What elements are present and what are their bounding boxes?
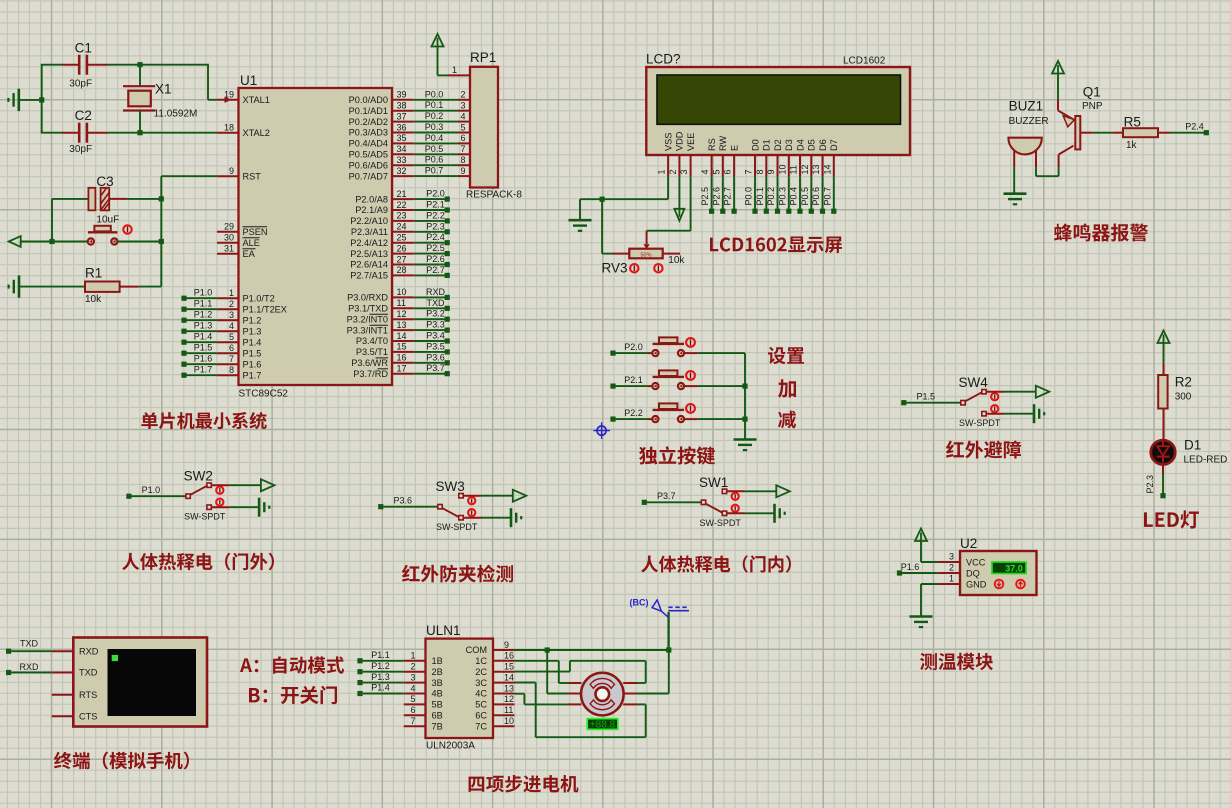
wire button bus (742, 353, 747, 439)
svg-text:1C: 1C (475, 656, 487, 666)
svg-text:9: 9 (504, 640, 509, 650)
power terminal (RP1) (432, 34, 449, 75)
svg-text:D1: D1 (1184, 437, 1201, 452)
wire C1 left (41, 64, 63, 66)
svg-text:P2.4/A12: P2.4/A12 (350, 238, 388, 248)
svg-text:LCD?: LCD? (646, 52, 681, 67)
svg-text:P2.6: P2.6 (711, 187, 721, 206)
label text 单片机最小系统 (141, 412, 266, 429)
capacitor C3 (52, 174, 161, 226)
svg-text:D1: D1 (762, 139, 772, 151)
svg-text:P3.3: P3.3 (426, 320, 445, 330)
svg-text:P1.4: P1.4 (243, 337, 262, 347)
wire COM (515, 612, 672, 694)
svg-text:6: 6 (723, 169, 733, 174)
svg-text:TXD: TXD (20, 639, 39, 649)
wire RST vertical (159, 176, 217, 286)
wire 4C to motor (515, 694, 569, 705)
svg-text:P0.7: P0.7 (425, 166, 444, 176)
arrow terminal (reset row) (9, 236, 55, 247)
svg-text:EA: EA (243, 249, 256, 259)
svg-text:10uF: 10uF (96, 215, 119, 226)
svg-text:RV3: RV3 (602, 261, 628, 276)
svg-text:P2.0: P2.0 (426, 189, 445, 199)
svg-text:2: 2 (460, 90, 465, 100)
svg-text:STC89C52: STC89C52 (239, 388, 289, 399)
origin marker (blue) (593, 422, 610, 439)
svg-text:BUZZER: BUZZER (1009, 116, 1049, 127)
svg-text:U2: U2 (960, 536, 977, 551)
svg-text:4C: 4C (475, 689, 487, 699)
svg-text:C1: C1 (75, 41, 92, 56)
wire C2 to XTAL2 (108, 132, 217, 134)
svg-text:7: 7 (229, 354, 234, 364)
svg-text:SW3: SW3 (436, 479, 465, 494)
svg-text:P2.4: P2.4 (1185, 122, 1204, 132)
svg-text:PSEN: PSEN (243, 227, 268, 237)
svg-text:P1.3: P1.3 (371, 672, 390, 682)
svg-text:3: 3 (679, 169, 689, 174)
svg-text:3: 3 (949, 552, 954, 562)
svg-text:33: 33 (397, 155, 407, 165)
svg-text:R1: R1 (85, 265, 102, 280)
svg-text:5: 5 (711, 169, 721, 174)
svg-text:P1.0/T2: P1.0/T2 (243, 293, 275, 303)
svg-text:1: 1 (949, 574, 954, 584)
resistor R2 (1158, 364, 1192, 439)
svg-text:13: 13 (811, 164, 821, 174)
svg-text:P0.1: P0.1 (755, 187, 765, 206)
svg-text:1k: 1k (1126, 140, 1138, 151)
svg-text:P3.7: P3.7 (426, 363, 445, 373)
svg-text:D6: D6 (818, 139, 828, 151)
svg-text:24: 24 (397, 222, 407, 232)
svg-text:SW-SPDT: SW-SPDT (959, 418, 1001, 428)
svg-text:10: 10 (397, 287, 407, 297)
svg-text:31: 31 (224, 244, 234, 254)
ground (LCD VSS) (569, 220, 592, 231)
svg-text:SW2: SW2 (184, 469, 213, 484)
svg-text:P1.1/T2EX: P1.1/T2EX (243, 304, 287, 314)
svg-text:SW1: SW1 (699, 475, 728, 490)
svg-text:P0.3/AD3: P0.3/AD3 (349, 128, 388, 138)
svg-text:TXD: TXD (79, 668, 98, 678)
svg-text:P3.5: P3.5 (426, 341, 445, 351)
svg-text:25: 25 (397, 233, 407, 243)
svg-text:50%: 50% (640, 253, 651, 259)
resistor pack RP1 RESPACK-8 (448, 50, 522, 201)
svg-text:7B: 7B (432, 721, 443, 731)
svg-text:GND: GND (966, 579, 987, 589)
svg-text:RW: RW (718, 136, 728, 151)
svg-text:12: 12 (504, 694, 514, 704)
svg-text:10k: 10k (668, 255, 685, 266)
svg-text:8: 8 (460, 155, 465, 165)
label text 终端（模拟手机） (54, 752, 189, 770)
svg-text:5: 5 (410, 694, 415, 704)
node terminals P1.0-P1.7 (181, 288, 217, 378)
node terminals P3 (RXD TXD P3.2-P3.7) (414, 287, 450, 376)
svg-text:3C: 3C (475, 678, 487, 688)
transistor Q1 PNP (1058, 84, 1103, 167)
svg-text:P2.3: P2.3 (426, 221, 445, 231)
svg-text:P1.1: P1.1 (194, 299, 213, 309)
svg-text:P3.0/RXD: P3.0/RXD (347, 293, 388, 303)
label text 人体热释电（门外） (122, 553, 274, 571)
LCD display LCD1602 (646, 52, 910, 177)
ground (U2) (910, 617, 933, 628)
svg-text:P2.2: P2.2 (426, 210, 445, 220)
svg-text:10: 10 (504, 716, 514, 726)
svg-text:SW-SPDT: SW-SPDT (700, 518, 742, 528)
svg-text:39: 39 (397, 90, 407, 100)
svg-text:P2.0/A8: P2.0/A8 (355, 194, 388, 204)
svg-text:12: 12 (800, 164, 810, 174)
label text 测温模块 (920, 653, 993, 670)
svg-text:6: 6 (460, 133, 465, 143)
svg-text:9: 9 (460, 166, 465, 176)
motor speed display (587, 719, 618, 731)
svg-text:P0.0: P0.0 (425, 89, 444, 99)
svg-text:3: 3 (460, 101, 465, 111)
svg-text:P3.5/T1: P3.5/T1 (356, 347, 388, 357)
svg-text:30: 30 (224, 233, 234, 243)
svg-text:P0.5: P0.5 (800, 187, 810, 206)
node terminals P2.0-P2.7 (414, 189, 450, 278)
temperature module U2 (938, 536, 1037, 595)
svg-text:2: 2 (668, 169, 678, 174)
svg-text:P3.4: P3.4 (426, 331, 445, 341)
svg-text:6: 6 (410, 705, 415, 715)
label text 减 (778, 411, 796, 429)
svg-text:5C: 5C (475, 700, 487, 710)
svg-text:RXD: RXD (19, 662, 39, 672)
label text 独立按键 (639, 446, 715, 464)
svg-text:300: 300 (1175, 392, 1192, 403)
svg-text:P2.1/A9: P2.1/A9 (355, 205, 388, 215)
virtual terminal (phone) (52, 638, 207, 727)
svg-text:15: 15 (397, 342, 407, 352)
capacitor C1 (62, 41, 108, 90)
svg-text:D0: D0 (750, 139, 760, 151)
svg-text:35: 35 (397, 133, 407, 143)
svg-text:XTAL2: XTAL2 (243, 128, 270, 138)
svg-text:36: 36 (397, 122, 407, 132)
svg-text:VCC: VCC (966, 557, 986, 567)
svg-text:14: 14 (397, 331, 407, 341)
svg-text:13: 13 (397, 320, 407, 330)
power terminal VDD (down arrow) (674, 176, 684, 220)
svg-text:9: 9 (766, 169, 776, 174)
svg-text:P2.6/A14: P2.6/A14 (350, 260, 388, 270)
svg-text:RST: RST (243, 171, 262, 181)
power terminal (Q1 emitter) (1052, 61, 1064, 101)
svg-text:P3.2/INT0: P3.2/INT0 (347, 314, 388, 324)
wire VSS to ground (580, 176, 668, 220)
svg-text:SW-SPDT: SW-SPDT (184, 512, 226, 522)
svg-text:P1.2: P1.2 (371, 661, 390, 671)
svg-text:BUZ1: BUZ1 (1009, 99, 1044, 114)
resistor R1 (85, 265, 161, 304)
svg-text:P0.3: P0.3 (425, 122, 444, 132)
label text 四项步进电机 (469, 775, 579, 792)
svg-text:8: 8 (229, 365, 234, 375)
svg-text:P1.7: P1.7 (243, 370, 262, 380)
wire base to R5 (1093, 132, 1113, 134)
svg-text:P2.7/A15: P2.7/A15 (350, 271, 388, 281)
junction (C1/C2 vertical) (39, 65, 44, 133)
label text LCD1602显示屏 (710, 236, 842, 253)
microcontroller U1 STC89C52 (217, 73, 414, 399)
svg-text:7: 7 (744, 169, 754, 174)
svg-text:10: 10 (777, 164, 787, 174)
svg-text:P0.0: P0.0 (744, 187, 754, 206)
svg-text:14: 14 (822, 164, 832, 174)
svg-text:P1.2: P1.2 (243, 315, 262, 325)
push button P2.1 (610, 370, 745, 389)
svg-text:P3.4/T0: P3.4/T0 (356, 336, 388, 346)
svg-text:7C: 7C (475, 721, 487, 731)
svg-text:11: 11 (789, 165, 799, 174)
svg-text:1B: 1B (432, 656, 443, 666)
svg-text:P3.6: P3.6 (394, 496, 413, 506)
svg-text:RESPACK-8: RESPACK-8 (466, 190, 522, 201)
wire U2 GND (921, 584, 938, 617)
svg-text:P2.5: P2.5 (426, 243, 445, 253)
wire VEE to RV3 wiper (643, 176, 690, 249)
svg-text:LED-RED: LED-RED (1184, 454, 1228, 465)
svg-text:P3.7/RD: P3.7/RD (353, 369, 388, 379)
svg-text:2: 2 (949, 563, 954, 573)
svg-text:1: 1 (452, 65, 457, 75)
svg-text:15: 15 (504, 662, 514, 672)
svg-text:P1.3: P1.3 (194, 321, 213, 331)
svg-text:14: 14 (504, 672, 514, 682)
crystal X1 (123, 62, 197, 135)
svg-text:P1.6: P1.6 (194, 354, 213, 364)
wire C2 left (41, 132, 63, 134)
svg-text:13: 13 (504, 683, 514, 693)
wire C1 to XTAL1 (108, 65, 217, 100)
svg-text:P0.2: P0.2 (766, 187, 776, 206)
svg-text:D4: D4 (795, 139, 805, 151)
svg-text:3B: 3B (432, 678, 443, 688)
svg-text:U1: U1 (240, 73, 257, 88)
svg-text:P0.2/AD2: P0.2/AD2 (349, 117, 388, 127)
svg-text:RP1: RP1 (470, 50, 496, 65)
svg-text:38: 38 (397, 101, 407, 111)
svg-text:P1.6: P1.6 (243, 359, 262, 369)
svg-text:E: E (729, 145, 739, 151)
node terminal P2.4 (1170, 122, 1209, 136)
svg-text:P1.5: P1.5 (917, 392, 936, 402)
svg-text:P1.4: P1.4 (371, 683, 390, 693)
svg-text:P1.5: P1.5 (194, 343, 213, 353)
label text LED灯 (1144, 510, 1199, 528)
svg-text:P2.4: P2.4 (426, 232, 445, 242)
svg-text:Q1: Q1 (1083, 84, 1101, 99)
capacitor C2 (62, 108, 108, 155)
svg-text:P2.1: P2.1 (624, 375, 643, 385)
svg-text:P2.1: P2.1 (426, 200, 445, 210)
wire buzzer left to ground (1013, 168, 1015, 194)
svg-text:6B: 6B (432, 711, 443, 721)
svg-text:ULN1: ULN1 (426, 623, 461, 638)
svg-text:P0.7: P0.7 (822, 187, 832, 206)
svg-text:30pF: 30pF (69, 79, 92, 90)
svg-text:18: 18 (224, 123, 234, 133)
svg-text:34: 34 (397, 144, 407, 154)
svg-text:PNP: PNP (1082, 101, 1103, 112)
svg-text:32: 32 (397, 166, 407, 176)
ground (buzzer) (1004, 194, 1027, 205)
svg-text:P1.7: P1.7 (194, 365, 213, 375)
svg-text:P1.3: P1.3 (243, 326, 262, 336)
svg-text:+88.8: +88.8 (590, 720, 616, 731)
svg-text:P0.5: P0.5 (425, 144, 444, 154)
svg-text:RS: RS (707, 138, 717, 151)
switch SW4 SW-SPDT (901, 375, 1049, 428)
svg-text:D5: D5 (807, 139, 817, 151)
svg-text:C2: C2 (75, 108, 92, 123)
svg-text:P2.7: P2.7 (723, 187, 733, 206)
svg-text:P0.4: P0.4 (425, 133, 444, 143)
svg-text:P2.2: P2.2 (624, 408, 643, 418)
svg-text:D2: D2 (773, 139, 783, 151)
svg-text:P0.6: P0.6 (425, 155, 444, 165)
bus wires P0.0-P0.7 to RP1 (414, 89, 470, 176)
svg-text:ULN2003A: ULN2003A (426, 741, 475, 752)
svg-text:DQ: DQ (966, 568, 980, 578)
svg-text:P2.5/A13: P2.5/A13 (350, 249, 388, 259)
svg-text:1: 1 (229, 288, 234, 298)
svg-text:9: 9 (229, 166, 234, 176)
svg-text:LCD1602: LCD1602 (843, 56, 886, 67)
svg-text:12: 12 (397, 309, 407, 319)
svg-text:R5: R5 (1124, 114, 1141, 129)
svg-text:P1.6: P1.6 (901, 562, 920, 572)
antenna (BC) (630, 598, 690, 650)
svg-text:6C: 6C (475, 711, 487, 721)
svg-text:D3: D3 (784, 139, 794, 151)
svg-text:23: 23 (397, 211, 407, 221)
svg-text:P0.2: P0.2 (425, 111, 444, 121)
ground (R1 row) (9, 275, 85, 297)
svg-text:P0.1/AD1: P0.1/AD1 (349, 106, 388, 116)
junction (VSS/RV3) (600, 197, 605, 202)
svg-text:P3.6: P3.6 (426, 352, 445, 362)
svg-text:28: 28 (397, 265, 407, 275)
buzzer BUZ1 (1008, 99, 1048, 168)
label text 红外避障 (946, 441, 1021, 459)
svg-text:VSS: VSS (663, 133, 673, 151)
svg-text:5B: 5B (432, 700, 443, 710)
svg-text:P2.5: P2.5 (700, 187, 710, 206)
node terminals P1.1-P1.4 (357, 650, 403, 696)
wire RV3 left (602, 199, 613, 253)
node terminal P1.6 (897, 562, 938, 576)
svg-text:4: 4 (700, 169, 710, 174)
push button P2.2 (610, 403, 745, 422)
label text 蜂鸣器报警 (1054, 224, 1148, 242)
svg-text:8: 8 (755, 169, 765, 174)
driver ULN1 ULN2003A (404, 623, 515, 752)
svg-text:30pF: 30pF (69, 144, 92, 155)
svg-text:P2.2/A10: P2.2/A10 (350, 216, 388, 226)
node terminal RXD (6, 662, 52, 675)
switch SW3 SW-SPDT (378, 479, 526, 532)
svg-text:P1.1: P1.1 (371, 650, 390, 660)
LED D1 LED-RED (1151, 437, 1228, 465)
svg-text:P1.2: P1.2 (194, 310, 213, 320)
svg-text:1: 1 (657, 169, 667, 174)
label text 红外防夹检测 (402, 565, 513, 583)
svg-text:P0.4/AD4: P0.4/AD4 (349, 139, 388, 149)
svg-text:5: 5 (229, 332, 234, 342)
svg-text:SW-SPDT: SW-SPDT (436, 522, 478, 532)
svg-text:C3: C3 (96, 174, 113, 189)
potentiometer RV3 (602, 249, 686, 276)
svg-text:P2.6: P2.6 (426, 254, 445, 264)
svg-text:P2.3: P2.3 (1145, 475, 1155, 494)
svg-text:P0.4: P0.4 (789, 187, 799, 206)
svg-text:21: 21 (397, 189, 407, 199)
svg-text:11: 11 (397, 298, 406, 308)
svg-text:(BC): (BC) (630, 598, 649, 608)
label text B：开关门 (249, 686, 337, 705)
svg-text:P3.6/WR: P3.6/WR (351, 358, 388, 368)
svg-text:7: 7 (410, 716, 415, 726)
svg-text:P3.1/TXD: P3.1/TXD (348, 304, 388, 314)
svg-text:P0.0/AD0: P0.0/AD0 (349, 95, 388, 105)
svg-text:P2.3/A11: P2.3/A11 (351, 227, 388, 237)
svg-text:P2.7: P2.7 (426, 265, 445, 275)
LCD data/control wires to nodes (700, 176, 836, 213)
svg-text:2B: 2B (432, 667, 443, 677)
svg-text:1: 1 (410, 651, 415, 661)
stepper motor (568, 673, 637, 716)
wire 3C to motor (515, 683, 646, 738)
switch SW1 SW-SPDT (642, 475, 790, 528)
svg-text:16: 16 (397, 353, 407, 363)
ground (buttons) (734, 440, 757, 451)
svg-text:4: 4 (460, 111, 465, 121)
svg-text:P0.6/AD6: P0.6/AD6 (349, 160, 388, 170)
svg-text:CTS: CTS (79, 712, 97, 722)
svg-text:6: 6 (229, 343, 234, 353)
svg-text:4B: 4B (432, 689, 443, 699)
wire 2C to motor (515, 661, 646, 683)
wire buzzer to collector (1036, 168, 1059, 177)
node terminal P2.3 (1145, 465, 1166, 499)
push button (reset) (52, 225, 161, 244)
svg-text:R2: R2 (1175, 374, 1192, 389)
svg-text:17: 17 (397, 364, 407, 374)
svg-text:X1: X1 (155, 82, 172, 97)
svg-text:37: 37 (397, 111, 407, 121)
svg-text:COM: COM (466, 645, 487, 655)
wire 1C to motor (515, 661, 569, 683)
ground (crystal section) (8, 89, 39, 111)
svg-text:RXD: RXD (79, 646, 99, 656)
svg-text:P1.4: P1.4 (194, 332, 213, 342)
svg-text:22: 22 (397, 200, 407, 210)
svg-text:RXD: RXD (426, 287, 446, 297)
svg-text:16: 16 (504, 651, 514, 661)
svg-text:P1.0: P1.0 (142, 485, 161, 495)
svg-text:P2.0: P2.0 (624, 342, 643, 352)
svg-text:2: 2 (410, 662, 415, 672)
